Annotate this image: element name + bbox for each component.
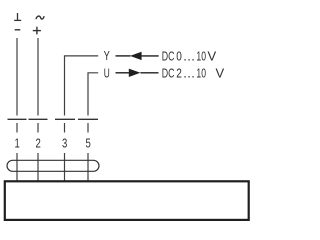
terminal 2 stub — [37, 123, 39, 133]
svg-text:0: 0 — [176, 48, 182, 63]
node Y — [104, 48, 110, 63]
AC supply symbol ~ — [36, 16, 44, 19]
ground — [14, 13, 21, 20]
wire terminal 2 — [37, 38, 39, 116]
terminal 5 contact dash — [78, 118, 98, 120]
value label DC 0...10 V — [162, 48, 217, 63]
wire 2 into actuator — [37, 153, 39, 181]
wire U to arrow — [116, 72, 130, 74]
terminal 5 stub — [87, 123, 89, 133]
svg-text:DC: DC — [162, 48, 175, 63]
wire 3 into actuator — [64, 153, 66, 181]
wire Y to arrow — [116, 55, 131, 57]
signal arrow out of U — [129, 69, 141, 77]
actuator body — [5, 181, 249, 220]
svg-text:U: U — [104, 65, 110, 80]
wire terminal 1 — [16, 38, 18, 116]
terminal 3 stub — [64, 123, 66, 133]
node U — [104, 65, 110, 80]
pin number 1 — [15, 136, 20, 151]
svg-text:DC: DC — [162, 66, 175, 81]
terminal 2 contact dash — [29, 118, 48, 120]
svg-text:2: 2 — [36, 136, 41, 151]
svg-text:10: 10 — [196, 66, 206, 81]
value label DC 2...10 V — [162, 66, 225, 81]
svg-text:2: 2 — [176, 66, 182, 81]
pin number 3 — [62, 136, 67, 151]
wire arrow to DC 2...10 V label — [140, 72, 158, 74]
signal arrow into Y — [130, 52, 142, 60]
wire 5 into actuator — [87, 153, 89, 181]
svg-text:...: ... — [183, 48, 195, 63]
minus polarity label terminal 1 — [15, 29, 21, 31]
wire Y terminal 3 — [65, 56, 99, 116]
wire U terminal 5 — [88, 73, 98, 116]
svg-text:10: 10 — [196, 48, 206, 63]
svg-text:3: 3 — [62, 136, 67, 151]
svg-text:V: V — [208, 48, 217, 63]
wire 1 into actuator — [16, 153, 18, 181]
svg-text:1: 1 — [15, 136, 20, 151]
svg-text:5: 5 — [86, 136, 91, 151]
svg-text:...: ... — [183, 66, 195, 81]
terminal 1 contact dash — [8, 118, 27, 120]
terminal 3 contact dash — [55, 118, 75, 120]
terminal 1 stub — [16, 123, 18, 133]
plus polarity label terminal 2 — [33, 27, 41, 35]
pin number 2 — [36, 136, 41, 151]
wire arrow to DC 0...10 V label — [142, 55, 159, 57]
pin number 5 — [86, 136, 91, 151]
svg-text:Y: Y — [104, 48, 110, 63]
cable clamp — [7, 160, 99, 171]
svg-text:V: V — [216, 66, 225, 81]
